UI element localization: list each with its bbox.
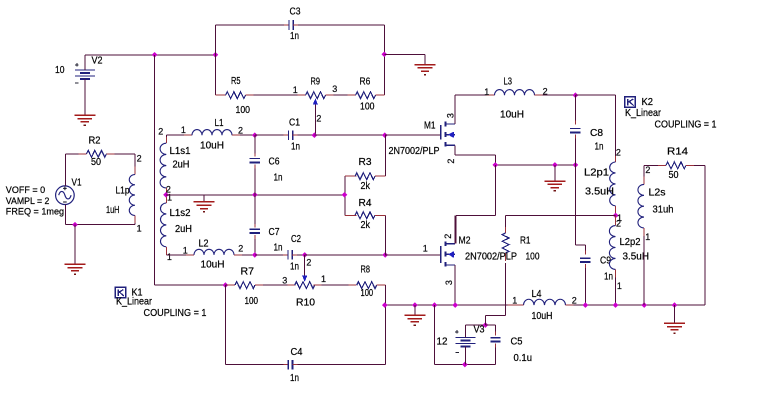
label K2 <box>642 97 654 108</box>
svg-text:C7: C7 <box>269 227 280 238</box>
wire <box>464 325 466 365</box>
label C9 <box>600 256 611 267</box>
potentiometer R9 <box>298 92 334 99</box>
svg-text:C5: C5 <box>511 336 523 347</box>
label K_Linear K1 <box>116 296 152 308</box>
inductor L1 <box>166 130 240 136</box>
resistor R5 <box>215 92 253 99</box>
svg-text:L4: L4 <box>532 289 542 300</box>
wire <box>74 225 76 265</box>
capacitor C3 <box>284 20 298 30</box>
svg-text:1: 1 <box>423 244 428 254</box>
label C1 <box>289 117 300 128</box>
svg-text:R8: R8 <box>361 265 371 276</box>
svg-text:1: 1 <box>321 274 326 284</box>
svg-text:1: 1 <box>617 281 622 291</box>
node junction <box>72 222 78 228</box>
svg-text:10uH: 10uH <box>532 311 553 322</box>
svg-text:100: 100 <box>236 105 251 116</box>
svg-text:C3: C3 <box>290 6 301 17</box>
node junction <box>252 252 258 258</box>
label K_Linear K2 <box>625 107 661 119</box>
label L2s value 31uh <box>653 205 674 216</box>
inductor L2p2 <box>609 215 615 305</box>
pin 3 of R9 <box>332 84 337 94</box>
wire <box>263 284 288 286</box>
svg-text:1n: 1n <box>274 173 283 184</box>
node junction <box>641 302 647 308</box>
svg-text:1n: 1n <box>274 242 283 253</box>
pin 2 of R10 <box>306 257 311 267</box>
label C4 <box>291 347 303 358</box>
svg-text:0.1u: 0.1u <box>514 353 533 364</box>
svg-text:1: 1 <box>167 252 172 262</box>
label L1s1 value 2uH <box>173 159 190 170</box>
wire <box>215 24 284 26</box>
pin 2 at mid junction <box>166 185 171 195</box>
label V2 value 10 <box>55 65 65 76</box>
svg-text:R14: R14 <box>667 147 688 158</box>
svg-text:2N7002/PLP: 2N7002/PLP <box>389 146 440 157</box>
svg-text:R10: R10 <box>296 298 315 309</box>
node junction <box>432 302 438 308</box>
pin 2 of L1 <box>238 126 243 136</box>
svg-text:R1: R1 <box>520 236 531 247</box>
wire <box>203 195 205 202</box>
resistor R14 <box>644 162 705 169</box>
svg-text:3: 3 <box>332 84 337 94</box>
wire <box>385 285 387 365</box>
label R8 <box>361 265 371 276</box>
svg-text:C1: C1 <box>289 117 300 128</box>
pin 2 of L3 <box>543 86 548 96</box>
node junction <box>342 192 348 198</box>
label L3 value 10uH <box>500 110 524 121</box>
wire <box>297 254 305 256</box>
inductor L2p1 <box>610 95 616 215</box>
label R6 <box>360 77 371 88</box>
svg-text:C2: C2 <box>291 234 301 245</box>
label M2 type 2N7002/PLP <box>465 252 517 263</box>
label M1 <box>424 121 436 132</box>
node junction <box>613 302 619 308</box>
wire <box>240 134 255 136</box>
label R7 <box>241 267 255 278</box>
svg-text:M2: M2 <box>459 236 471 247</box>
pin 2 of L1p <box>137 154 142 164</box>
coupling K2 symbol <box>625 97 636 107</box>
pin 1 of L3 <box>484 87 489 97</box>
label M2 <box>459 236 471 247</box>
svg-text:2uH: 2uH <box>175 224 192 235</box>
label R5 value 100 <box>236 105 251 116</box>
svg-text:1: 1 <box>293 85 298 95</box>
resistor R6 <box>348 92 385 99</box>
node junction <box>583 302 589 308</box>
svg-text:1: 1 <box>512 295 517 305</box>
svg-text:1: 1 <box>484 87 489 97</box>
label L1s1 <box>170 146 191 157</box>
svg-text:50: 50 <box>669 170 679 181</box>
wire <box>344 176 346 215</box>
svg-text:3: 3 <box>446 113 456 118</box>
label L2 value 10uH <box>201 259 225 270</box>
svg-text:2k: 2k <box>361 181 371 192</box>
pin 2 of L2p1 <box>616 147 621 157</box>
svg-text:R7: R7 <box>241 267 255 278</box>
resistor R3 <box>345 173 385 180</box>
node junction <box>483 322 489 328</box>
label L1 value 10uH <box>200 141 224 152</box>
capacitor C8 <box>570 95 580 165</box>
pin 3 of M1 <box>446 113 456 118</box>
node junction <box>492 162 498 168</box>
wire <box>424 54 426 64</box>
label C5 <box>511 336 523 347</box>
label L2 <box>199 239 209 250</box>
pin 1 of L2 <box>183 245 188 255</box>
svg-text:1: 1 <box>645 232 650 242</box>
label V3 <box>474 324 485 335</box>
wiper of R9 <box>313 98 318 135</box>
label V3 value 12 <box>437 336 448 347</box>
pin 2 of L4 <box>572 295 577 305</box>
label R2 value 50 <box>91 157 101 168</box>
svg-text:COUPLING = 1: COUPLING = 1 <box>655 119 717 131</box>
node junction <box>381 51 387 57</box>
label FREQ <box>6 206 64 217</box>
label K1 <box>132 287 143 298</box>
pin 1 of L2p2 <box>617 281 622 291</box>
svg-text:L2: L2 <box>199 239 209 250</box>
svg-text:L1p: L1p <box>116 185 130 196</box>
wire <box>485 316 505 325</box>
label V1 <box>72 178 82 189</box>
label R3 value 2k <box>361 181 371 192</box>
svg-text:2: 2 <box>306 257 311 267</box>
label M1 type 2N7002/PLP <box>389 146 440 157</box>
wiper of R10 <box>302 255 307 282</box>
label R5 <box>231 76 241 87</box>
label C5 value 0.1u <box>514 353 533 364</box>
label C3 <box>290 6 301 17</box>
wire <box>225 364 283 366</box>
label C2 value 1n <box>290 262 299 273</box>
capacitor C1 <box>283 130 297 140</box>
wire <box>254 94 298 96</box>
capacitor C9 <box>580 245 590 305</box>
svg-text:L2s: L2s <box>649 187 666 198</box>
svg-text:1n: 1n <box>290 262 299 273</box>
label V2 <box>92 56 103 67</box>
label R7 value 100 <box>245 296 259 307</box>
wire <box>298 134 315 136</box>
node junction <box>163 192 169 198</box>
pin 2 of L1s1 <box>158 126 163 136</box>
svg-text:COUPLING = 1: COUPLING = 1 <box>144 307 207 319</box>
svg-text:V3: V3 <box>474 324 485 335</box>
svg-text:R5: R5 <box>231 76 241 87</box>
svg-text:1: 1 <box>183 245 188 255</box>
wire <box>456 165 496 244</box>
pin 1 of L2p1 <box>617 213 622 223</box>
ground <box>544 181 565 191</box>
wire <box>574 304 706 306</box>
label C3 value 1n <box>290 31 299 42</box>
svg-text:C8: C8 <box>590 128 603 139</box>
svg-text:31uh: 31uh <box>653 205 674 216</box>
svg-text:10: 10 <box>55 65 65 76</box>
wire <box>65 205 135 225</box>
svg-text:2: 2 <box>137 154 142 164</box>
label C6 value 1n <box>274 173 283 184</box>
pin 2 of M1 <box>446 159 456 164</box>
wire <box>455 94 487 96</box>
svg-text:2: 2 <box>238 243 243 253</box>
node junction <box>573 92 579 98</box>
wire <box>674 305 676 323</box>
svg-text:2N7002/PLP: 2N7002/PLP <box>465 252 517 263</box>
label R8 value 100 <box>361 288 374 299</box>
wire <box>255 254 283 256</box>
label C8 <box>590 128 603 139</box>
svg-text:1n: 1n <box>290 373 299 384</box>
svg-text:100: 100 <box>245 296 259 307</box>
capacitor C7 <box>250 195 260 255</box>
label VAMPL <box>6 196 50 207</box>
pin 1 of L1p <box>137 224 142 234</box>
node junction <box>152 52 158 58</box>
pin 3 of M2 <box>444 280 454 285</box>
pin 1 of R9 <box>293 85 298 95</box>
node junction <box>462 362 468 368</box>
svg-text:VOFF = 0: VOFF = 0 <box>6 185 45 196</box>
svg-text:1n: 1n <box>604 272 613 283</box>
wire <box>225 284 227 286</box>
node junction <box>302 252 308 258</box>
inductor L1p <box>129 154 135 225</box>
label L1s2 value 2uH <box>175 224 192 235</box>
wire <box>704 165 706 305</box>
resistor R1 <box>502 215 509 315</box>
label L2s <box>649 187 666 198</box>
capacitor C5 <box>485 325 500 365</box>
svg-text:L3: L3 <box>504 77 513 88</box>
capacitor C4 <box>283 360 297 370</box>
wire <box>166 194 345 196</box>
svg-text:3: 3 <box>282 275 287 285</box>
ground <box>664 323 685 333</box>
wire <box>322 284 349 286</box>
wire <box>305 254 386 256</box>
svg-text:2: 2 <box>158 126 163 136</box>
resistor R4 <box>345 212 385 219</box>
wire <box>298 24 384 26</box>
label R10 <box>296 298 315 309</box>
wire <box>434 305 436 364</box>
node junction <box>452 302 458 308</box>
resistor R2 <box>79 150 115 157</box>
pin 1 of L2s <box>645 232 650 242</box>
pin 2 of L2s <box>645 165 650 175</box>
svg-text:2: 2 <box>443 234 453 239</box>
label C8 value 1n <box>595 142 604 153</box>
svg-text:R3: R3 <box>359 157 372 168</box>
svg-text:R9: R9 <box>311 77 321 88</box>
wire <box>454 95 456 124</box>
inductor L1s2 <box>160 195 166 255</box>
pin 2 of R9 <box>316 113 321 123</box>
inductor L2s <box>638 165 644 305</box>
wire <box>543 94 576 96</box>
pin 1 of L4 <box>512 295 517 305</box>
svg-text:FREQ = 1meg: FREQ = 1meg <box>6 206 64 217</box>
battery V3 <box>455 330 475 353</box>
ground <box>65 264 86 274</box>
pin 1 of R10 <box>321 274 326 284</box>
potentiometer R10 <box>288 282 322 289</box>
svg-text:3.5uH: 3.5uH <box>585 187 614 198</box>
wire <box>575 165 585 245</box>
svg-text:V1: V1 <box>72 178 82 189</box>
svg-text:V2: V2 <box>92 56 103 67</box>
label R6 value 100 <box>360 102 375 113</box>
label R1 <box>520 236 531 247</box>
label R9 <box>311 77 321 88</box>
wire <box>495 164 575 166</box>
wire <box>255 134 284 136</box>
node junction <box>552 162 558 168</box>
coupling K1 symbol <box>115 287 126 297</box>
svg-text:R2: R2 <box>89 136 101 147</box>
svg-text:2k: 2k <box>361 220 371 231</box>
node junction <box>223 282 229 288</box>
wire <box>155 284 226 286</box>
wire <box>298 364 386 366</box>
svg-text:3.5uH: 3.5uH <box>623 251 650 262</box>
svg-text:L1s2: L1s2 <box>170 208 191 219</box>
label C1 value 1n <box>291 141 300 152</box>
svg-text:2: 2 <box>238 126 243 136</box>
wire <box>242 254 255 256</box>
svg-text:3: 3 <box>444 280 454 285</box>
resistor R8 <box>349 282 386 289</box>
node junction <box>312 132 318 138</box>
transistor M2 <box>441 241 455 266</box>
ground <box>404 315 425 325</box>
label C7 value 1n <box>274 242 283 253</box>
label L1p value 1uH <box>106 205 120 216</box>
label L3 <box>504 77 513 88</box>
svg-text:L2p1: L2p1 <box>584 168 609 179</box>
wire <box>384 135 386 176</box>
resistor R7 <box>227 282 263 289</box>
wire <box>454 265 456 305</box>
wire <box>575 94 615 96</box>
svg-text:1: 1 <box>181 125 186 135</box>
wire <box>214 25 216 95</box>
wire <box>465 324 485 326</box>
label R14 value 50 <box>669 170 679 181</box>
wire <box>383 25 385 95</box>
svg-text:L2p2: L2p2 <box>620 237 641 248</box>
pin 3 of R10 <box>282 275 287 285</box>
inductor L3 <box>487 90 543 96</box>
label C4 value 1n <box>290 373 299 384</box>
label COUPLING K2 <box>655 119 717 131</box>
svg-text:K_Linear: K_Linear <box>625 107 661 119</box>
wire <box>155 54 216 56</box>
label L2p1 value 3.5uH <box>585 187 614 198</box>
label L1 <box>215 118 224 129</box>
wire <box>154 55 156 285</box>
label C9 value 1n <box>604 272 613 283</box>
label L1s2 <box>170 208 191 219</box>
inductor L1s1 <box>160 135 166 195</box>
label R14 <box>667 147 688 158</box>
node junction <box>412 302 418 308</box>
pin 1 of L1 <box>181 125 186 135</box>
svg-text:L1s1: L1s1 <box>170 146 191 157</box>
wire <box>385 254 441 256</box>
pin 1 of L1s2 <box>167 252 172 262</box>
svg-text:C4: C4 <box>291 347 303 358</box>
pin 2 of L2 <box>238 243 243 253</box>
pin 2 of M2 <box>443 234 453 239</box>
svg-text:100: 100 <box>361 288 374 299</box>
wire <box>84 55 86 115</box>
label R2 <box>89 136 101 147</box>
svg-text:50: 50 <box>91 157 101 168</box>
wire <box>506 214 616 216</box>
node junction <box>573 162 579 168</box>
svg-text:1n: 1n <box>595 142 604 153</box>
inductor L2 <box>166 249 242 255</box>
wire <box>455 145 495 165</box>
inductor L4 <box>508 299 574 305</box>
label VOFF <box>6 185 45 196</box>
wire <box>224 285 226 365</box>
wire <box>85 54 155 56</box>
svg-text:2uH: 2uH <box>173 159 190 170</box>
node junction <box>213 52 219 58</box>
battery V2 <box>75 63 95 83</box>
svg-text:12: 12 <box>437 336 448 347</box>
wire <box>65 154 78 186</box>
label R1 value 100 <box>526 252 540 263</box>
pin 1 of M2 <box>423 244 428 254</box>
svg-text:L1: L1 <box>215 118 224 129</box>
label R4 <box>359 198 372 209</box>
node junction <box>382 132 388 138</box>
node junction <box>252 192 258 198</box>
pin 2 of L2p2 <box>616 218 621 228</box>
svg-text:1: 1 <box>137 224 142 234</box>
node junction <box>613 213 619 219</box>
svg-text:2: 2 <box>616 147 621 157</box>
capacitor C2 <box>283 250 297 260</box>
svg-text:100: 100 <box>360 102 375 113</box>
svg-text:2: 2 <box>572 295 577 305</box>
wire <box>384 53 425 55</box>
label C6 <box>269 157 280 168</box>
svg-text:M1: M1 <box>424 121 436 132</box>
svg-text:1uH: 1uH <box>106 205 120 216</box>
wire <box>454 215 456 243</box>
label R3 <box>359 157 372 168</box>
wire <box>384 215 386 255</box>
svg-text:C6: C6 <box>269 157 280 168</box>
